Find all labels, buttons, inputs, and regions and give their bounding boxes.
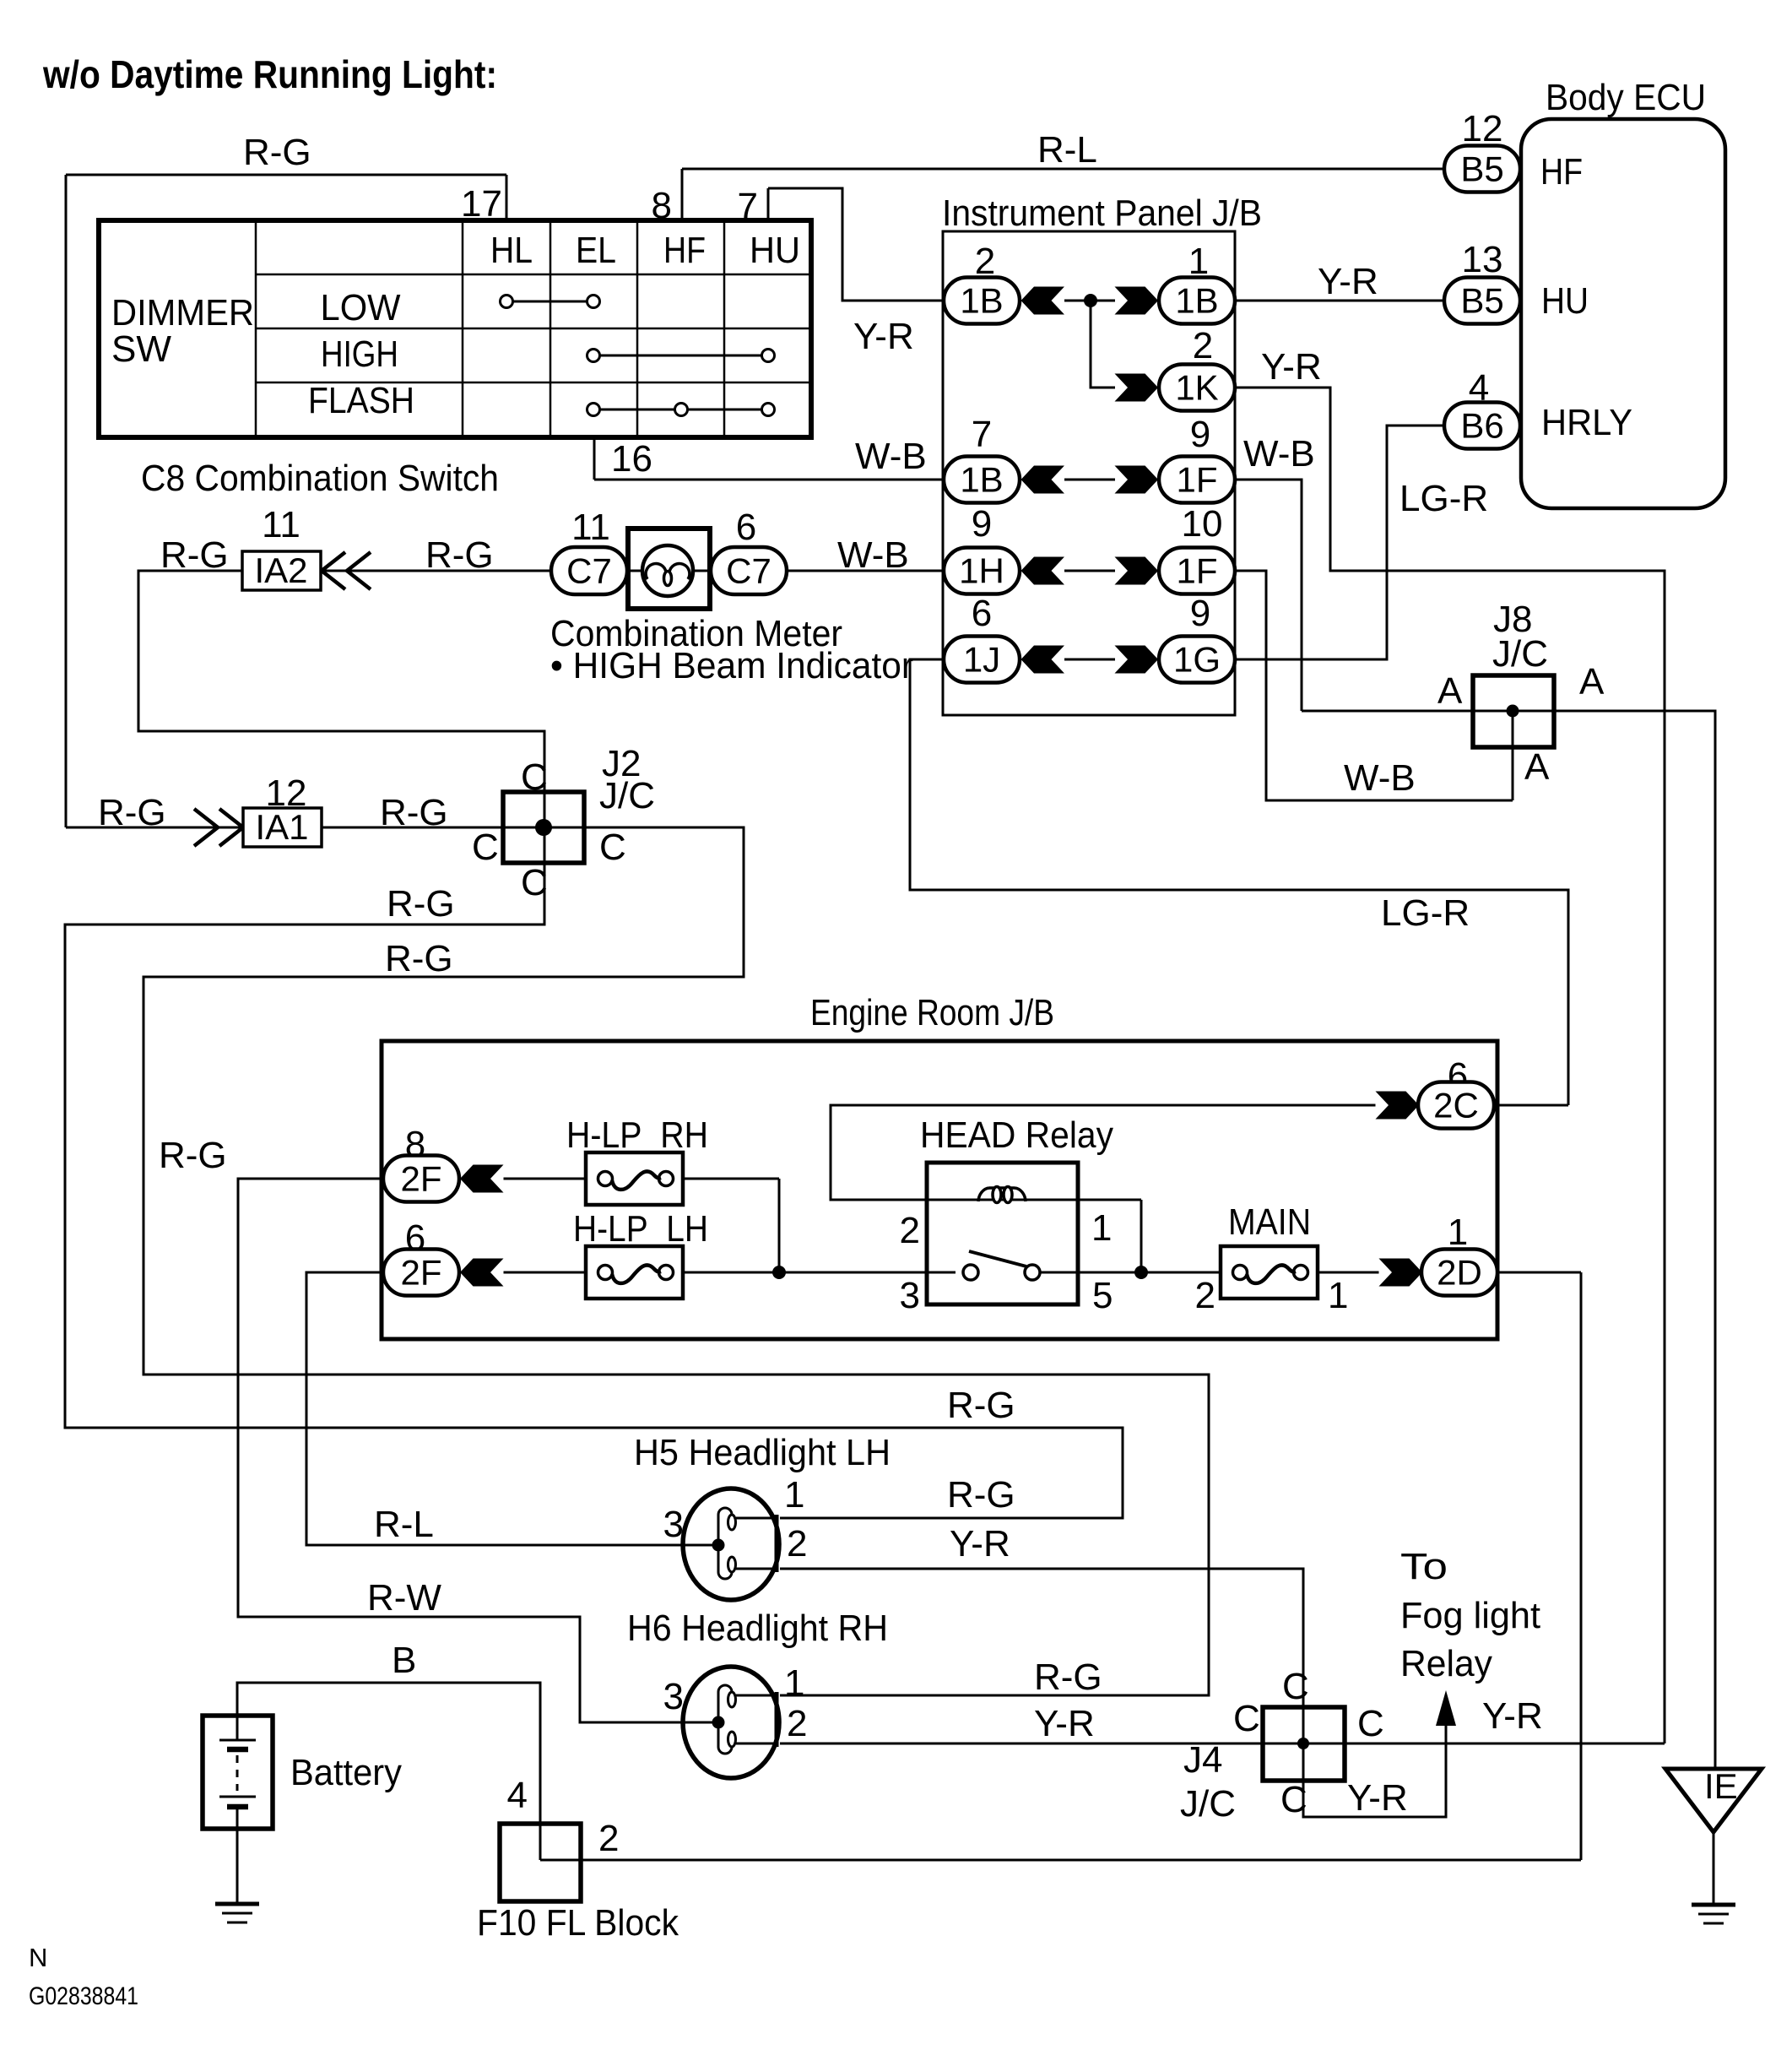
wire R-G from IA2 left around to J2 top	[138, 571, 544, 792]
node junction fuse RH/LH	[772, 1266, 786, 1279]
svg-text:1J: 1J	[963, 640, 1000, 680]
svg-text:Y-R: Y-R	[1318, 261, 1378, 302]
wire through J2 horizontal	[503, 827, 584, 829]
node J2 junction	[535, 819, 552, 836]
svg-text:R-G: R-G	[243, 132, 311, 173]
svg-text:1: 1	[784, 1474, 804, 1516]
pin 7 stub	[767, 188, 770, 220]
wire W-B from 1F pin 10 to J8 bottom	[1234, 571, 1513, 800]
svg-text:5: 5	[1092, 1275, 1113, 1316]
svg-text:13: 13	[1462, 239, 1503, 280]
svg-text:R-G: R-G	[160, 534, 229, 576]
svg-text:C: C	[1280, 1779, 1307, 1820]
svg-text:B5: B5	[1460, 149, 1503, 189]
arrow right row5	[1115, 646, 1159, 674]
wire R-G into IA1	[66, 827, 243, 829]
pin 16 stub	[593, 437, 596, 480]
svg-text:Battery: Battery	[290, 1752, 402, 1793]
arrow left row4	[1021, 557, 1065, 585]
svg-text:C: C	[472, 827, 499, 868]
svg-text:Body ECU: Body ECU	[1546, 77, 1706, 118]
svg-text:7: 7	[738, 186, 758, 227]
svg-text:R-G: R-G	[425, 534, 494, 576]
svg-text:1F: 1F	[1176, 460, 1217, 500]
wire through J4 vertical and bottom leg to fog relay	[1303, 1707, 1446, 1817]
switch contacts HIGH row EL-HU	[593, 355, 768, 357]
svg-text:2: 2	[1195, 1275, 1215, 1316]
svg-text:Y-R: Y-R	[1034, 1703, 1095, 1744]
wire R-L from 2F6 to H5 pin 3	[306, 1272, 718, 1545]
relay HEAD box	[927, 1163, 1078, 1304]
svg-text:• HIGH Beam Indicator: • HIGH Beam Indicator	[550, 645, 913, 686]
battery internal stems	[236, 1716, 239, 1740]
svg-text:HF: HF	[1540, 151, 1583, 193]
svg-text:A: A	[1524, 746, 1550, 788]
svg-text:3: 3	[900, 1275, 920, 1316]
svg-text:Fog light: Fog light	[1400, 1595, 1540, 1636]
headlight H5 bulb	[683, 1488, 779, 1600]
wire Y-R 1B1 to B5 HU	[1234, 300, 1443, 302]
svg-text:9: 9	[1190, 414, 1210, 455]
wire row5	[1064, 659, 1115, 661]
pin 17 stub	[506, 175, 508, 220]
wire fuse RH to junction	[683, 1178, 779, 1180]
svg-text:2F: 2F	[400, 1159, 441, 1199]
svg-text:1K: 1K	[1175, 368, 1218, 408]
svg-text:11: 11	[571, 507, 610, 548]
svg-text:2: 2	[787, 1523, 807, 1564]
node J8 junction	[1507, 705, 1519, 718]
svg-text:C: C	[1233, 1698, 1260, 1739]
svg-text:N: N	[29, 1943, 47, 1972]
wire A right of J8 to IE ground	[1554, 711, 1715, 1769]
svg-text:3: 3	[663, 1676, 684, 1717]
wire MAIN to 2D	[1318, 1272, 1379, 1274]
svg-text:Y-R: Y-R	[1482, 1695, 1543, 1737]
wire R-W from 2F8 to H6 pin 3	[238, 1179, 718, 1722]
svg-text:HIGH: HIGH	[321, 333, 398, 375]
switch contacts LOW row HL-EL	[506, 301, 593, 303]
svg-text:1: 1	[1328, 1275, 1348, 1316]
wire R-G net B from J2 right to H6 pin 1	[143, 827, 1209, 1695]
svg-text:C8 Combination Switch: C8 Combination Switch	[141, 458, 499, 499]
engine room J/B box	[382, 1041, 1497, 1339]
wire 2F6 to fuse H-LP LH	[504, 1272, 587, 1274]
svg-text:R-G: R-G	[387, 883, 455, 925]
svg-text:W-B: W-B	[855, 436, 927, 477]
svg-text:3: 3	[663, 1504, 684, 1545]
svg-text:R-G: R-G	[1034, 1657, 1102, 1698]
svg-text:R-G: R-G	[947, 1385, 1015, 1426]
wire Y-R from pin 7 to instrument panel 1B pin 2	[768, 188, 945, 301]
combination switch C8 table outline	[99, 220, 811, 437]
svg-text:2: 2	[598, 1818, 619, 1859]
svg-text:2: 2	[1193, 325, 1213, 366]
svg-text:11: 11	[262, 504, 300, 545]
svg-text:Instrument Panel J/B: Instrument Panel J/B	[942, 193, 1262, 234]
svg-text:J/C: J/C	[1492, 633, 1548, 675]
svg-text:Y-R: Y-R	[950, 1523, 1010, 1564]
svg-text:1H: 1H	[959, 551, 1004, 591]
svg-text:H-LP RH: H-LP RH	[566, 1114, 708, 1156]
svg-text:HRLY: HRLY	[1541, 402, 1632, 443]
svg-text:FLASH: FLASH	[308, 380, 414, 421]
svg-text:IA2: IA2	[254, 550, 307, 590]
svg-text:HU: HU	[750, 230, 800, 271]
wire W-B C7 to 1H	[787, 570, 945, 572]
wire junction down to 1K arrow	[1091, 301, 1115, 388]
arrow right into 2D	[1379, 1259, 1423, 1287]
svg-text:C: C	[599, 827, 626, 868]
arrow left from 2F6	[460, 1259, 504, 1287]
wire B battery to F10 block	[237, 1683, 540, 1860]
svg-text:J4: J4	[1183, 1739, 1222, 1781]
table inner row lines	[256, 274, 811, 276]
svg-text:1F: 1F	[1176, 551, 1217, 591]
wire fuse LH to relay	[683, 1272, 956, 1274]
wire W-B from pin 16 to instrument panel 1B pin 7	[594, 479, 945, 481]
svg-text:1: 1	[1448, 1212, 1468, 1253]
arrow right row1	[1115, 287, 1159, 315]
arrow left row5	[1021, 646, 1065, 674]
wire row1 with junction	[1064, 300, 1115, 302]
svg-text:HU: HU	[1541, 280, 1589, 322]
wire R-G net A from J2 bottom to H5 pin 1	[65, 863, 1123, 1518]
svg-text:2: 2	[787, 1703, 807, 1744]
svg-text:9: 9	[1190, 593, 1210, 634]
svg-text:R-W: R-W	[367, 1577, 441, 1619]
combination meter bulb box	[628, 529, 710, 609]
svg-text:B5: B5	[1460, 281, 1503, 321]
svg-text:C: C	[521, 756, 548, 798]
svg-text:DIMMER: DIMMER	[111, 292, 254, 333]
relay switch blade	[969, 1251, 1026, 1266]
wire through J8 and bottom leg	[1473, 710, 1554, 713]
svg-text:1B: 1B	[1175, 281, 1218, 321]
svg-text:W-B: W-B	[1344, 757, 1416, 799]
wire Y-R from 1K to J4 net (right side)	[1234, 388, 1665, 1743]
relay coil wire	[927, 1199, 1078, 1201]
switch contacts FLASH row EL-HF-HU	[593, 409, 768, 411]
svg-text:IE: IE	[1704, 1766, 1738, 1806]
ground below battery	[215, 1902, 259, 1906]
wire Y-R H6 pin2 through J4 to right net	[780, 1743, 1665, 1745]
svg-text:HF: HF	[663, 230, 706, 271]
arrow left row3	[1021, 466, 1065, 494]
table inner column lines	[255, 220, 257, 437]
svg-text:H6 Headlight RH: H6 Headlight RH	[627, 1608, 888, 1649]
svg-text:J/C: J/C	[599, 775, 655, 816]
svg-text:Y-R: Y-R	[853, 316, 914, 357]
svg-text:C: C	[1282, 1666, 1309, 1707]
headlight H6 bulb	[683, 1667, 779, 1778]
svg-text:IA1: IA1	[255, 807, 308, 847]
svg-text:8: 8	[652, 185, 672, 226]
svg-text:LOW: LOW	[321, 287, 401, 328]
wire R-L from pin 8 to Body ECU B5 HF	[682, 168, 1443, 171]
chevron arrows into IA1	[194, 809, 218, 846]
arrow right 1K row	[1115, 374, 1159, 402]
wire R-G IA2 to C7	[321, 570, 551, 572]
svg-text:Y-R: Y-R	[1261, 346, 1322, 388]
svg-text:MAIN: MAIN	[1228, 1201, 1311, 1243]
svg-text:4: 4	[507, 1775, 528, 1816]
svg-text:R-G: R-G	[947, 1474, 1015, 1516]
svg-text:To: To	[1400, 1546, 1448, 1587]
svg-text:2C: 2C	[1433, 1086, 1479, 1125]
wire B from F10 pin 2 to 2D	[540, 1859, 1581, 1862]
wire R-G IA1 to J2	[322, 827, 503, 829]
Body ECU box	[1521, 119, 1725, 508]
svg-text:1: 1	[1091, 1207, 1112, 1249]
wire 2F8 to fuse H-LP RH	[504, 1178, 587, 1180]
svg-text:J/C: J/C	[1180, 1783, 1236, 1825]
chevron arrows into IA2	[322, 552, 345, 589]
svg-text:C7: C7	[726, 551, 771, 591]
wire LG-R from B6 down to 1G	[1234, 426, 1443, 659]
wire row4	[1064, 570, 1115, 572]
node junction row1	[1084, 294, 1097, 307]
svg-text:R-L: R-L	[374, 1504, 434, 1545]
wire R-G from pin 17 to IA1 via left margin	[66, 174, 506, 176]
instrument panel J/B box	[943, 231, 1235, 715]
svg-text:LG-R: LG-R	[1399, 478, 1488, 519]
svg-text:1G: 1G	[1173, 640, 1221, 680]
ground IE	[1692, 1903, 1735, 1907]
wire battery to ground	[236, 1829, 239, 1904]
svg-text:7: 7	[972, 414, 992, 455]
svg-text:C7: C7	[566, 551, 612, 591]
svg-text:W-B: W-B	[837, 534, 909, 576]
svg-text:w/o Daytime Running Light:: w/o Daytime Running Light:	[42, 52, 497, 96]
svg-text:2F: 2F	[400, 1253, 441, 1293]
arrow left from 2F8	[460, 1165, 504, 1193]
wire row3	[1064, 479, 1115, 481]
svg-text:Engine Room J/B: Engine Room J/B	[810, 992, 1054, 1033]
svg-text:B6: B6	[1460, 406, 1503, 446]
svg-text:R-G: R-G	[159, 1135, 227, 1176]
svg-text:R-L: R-L	[1037, 129, 1097, 171]
svg-text:10: 10	[1182, 503, 1223, 545]
wire A left into J8	[1302, 710, 1473, 713]
svg-text:12: 12	[1462, 108, 1503, 149]
arrow to fog light relay	[1436, 1690, 1456, 1726]
battery box	[203, 1716, 273, 1829]
svg-text:SW: SW	[111, 328, 171, 370]
svg-text:Relay: Relay	[1400, 1643, 1492, 1684]
arrow right row4	[1115, 557, 1159, 585]
arrow right row3	[1115, 466, 1159, 494]
svg-text:2: 2	[900, 1210, 920, 1251]
svg-text:HL: HL	[490, 230, 533, 271]
wire 2D to B net	[1497, 1272, 1581, 1274]
node junction relay pin1/pin5	[1134, 1266, 1148, 1279]
svg-text:A: A	[1437, 670, 1463, 712]
wire Y-R H5 pin2 to J4 top	[780, 1569, 1303, 1707]
wire coil pin1 down to pin5 line	[1140, 1200, 1143, 1272]
svg-text:Y-R: Y-R	[1347, 1777, 1408, 1819]
wire head relay coil to 2C	[831, 1105, 1376, 1200]
svg-text:17: 17	[461, 183, 502, 225]
svg-text:HEAD Relay: HEAD Relay	[920, 1114, 1113, 1156]
high beam indicator bulb	[628, 570, 644, 572]
wire 2C to LG-R net right	[1493, 1104, 1568, 1107]
svg-text:B: B	[392, 1640, 416, 1681]
svg-text:R-G: R-G	[380, 792, 448, 833]
svg-text:G02838841: G02838841	[29, 1982, 138, 2010]
arrow right into 2C	[1376, 1092, 1420, 1120]
wire through J2 vertical	[544, 792, 546, 863]
arrow left row1	[1021, 287, 1065, 315]
svg-text:6: 6	[736, 507, 756, 548]
wire LG-R from 1J to 2C	[910, 659, 1568, 1105]
wire W-B from 1F pin 9 down to J8	[1234, 480, 1302, 711]
svg-text:A: A	[1579, 661, 1605, 702]
svg-text:H-LP LH: H-LP LH	[573, 1208, 708, 1250]
wire relay pin5 to MAIN fuse	[1040, 1272, 1221, 1274]
relay coil symbol	[978, 1188, 989, 1201]
wire IE triangle to ground	[1713, 1832, 1715, 1905]
svg-text:16: 16	[611, 438, 652, 480]
junction connector J2 box	[503, 792, 584, 863]
svg-text:R-G: R-G	[385, 938, 453, 979]
svg-text:W-B: W-B	[1243, 433, 1315, 474]
svg-text:R-G: R-G	[98, 792, 166, 833]
svg-text:EL: EL	[576, 230, 616, 271]
svg-text:C: C	[1357, 1703, 1384, 1744]
svg-text:H5 Headlight LH: H5 Headlight LH	[634, 1432, 891, 1473]
ground triangle IE	[1665, 1769, 1762, 1832]
battery plates	[219, 1739, 256, 1742]
junction connector J8 box	[1473, 675, 1554, 747]
svg-text:1B: 1B	[960, 460, 1003, 500]
svg-text:2D: 2D	[1437, 1253, 1482, 1293]
svg-text:9: 9	[972, 503, 992, 545]
relay switch contacts	[963, 1265, 978, 1280]
svg-text:6: 6	[972, 593, 992, 634]
svg-text:LG-R: LG-R	[1381, 892, 1470, 934]
pin 8 stub	[681, 169, 684, 220]
svg-text:1B: 1B	[960, 281, 1003, 321]
svg-text:1: 1	[784, 1662, 804, 1704]
svg-text:F10 FL Block: F10 FL Block	[477, 1902, 679, 1944]
junction connector J4 box	[1263, 1707, 1345, 1781]
node J4 junction	[1297, 1738, 1309, 1749]
